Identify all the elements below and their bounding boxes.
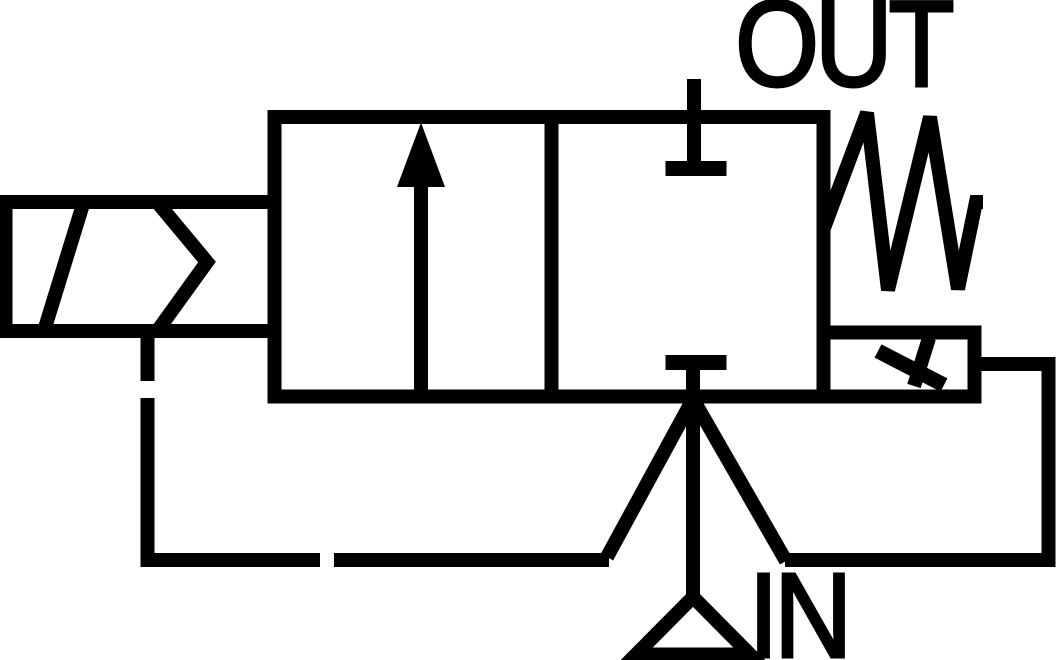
svg-text:OUT: OUT — [735, 0, 953, 113]
svg-text:IN: IN — [749, 548, 848, 660]
